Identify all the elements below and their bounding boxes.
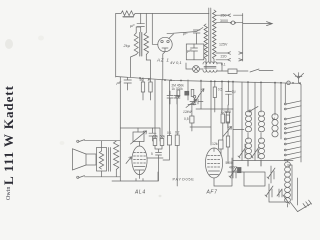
svg-text:3000: 3000 [220,19,228,23]
svg-text:5: 5 [151,152,153,156]
svg-text:M: M [272,117,275,121]
svg-text:PAYO05E: PAYO05E [173,176,195,181]
svg-text:µF: µF [130,23,135,28]
svg-text:AZ 1: AZ 1 [156,58,170,63]
svg-text:5000: 5000 [226,161,233,165]
svg-text:µF: µF [117,80,122,85]
svg-text:0,5: 0,5 [184,117,189,121]
svg-text:2kµ: 2kµ [123,43,131,48]
svg-text:12k: 12k [212,142,218,146]
svg-text:L 111 W Kadett: L 111 W Kadett [1,85,16,185]
svg-text:0,1: 0,1 [167,131,172,135]
svg-text:0,5: 0,5 [218,88,223,92]
svg-text:Owin: Owin [6,187,12,200]
svg-text:4V 0,1: 4V 0,1 [170,60,182,65]
svg-text:AF7: AF7 [206,190,218,196]
svg-text:0,1: 0,1 [221,63,226,67]
svg-text:50: 50 [140,78,144,82]
svg-text:1k 700k: 1k 700k [172,87,184,91]
svg-text:µF: µF [187,48,192,53]
svg-text:AL4: AL4 [134,190,146,196]
svg-text:12kW: 12kW [183,110,192,114]
svg-text:2µ: 2µ [232,90,236,94]
svg-text:0,3: 0,3 [226,110,231,114]
svg-text:50k: 50k [160,135,166,139]
svg-text:13k: 13k [153,135,159,139]
svg-text:0,2: 0,2 [175,131,180,135]
svg-text:125V: 125V [219,43,228,47]
svg-text:4000: 4000 [229,166,237,170]
svg-text:3: 3 [148,78,150,82]
svg-text:220: 220 [221,55,227,59]
svg-text:µF: µF [183,31,188,36]
svg-text:250: 250 [221,14,227,18]
